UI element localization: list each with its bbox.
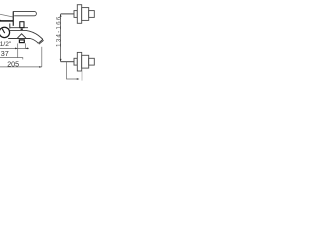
svg-text:1/2": 1/2" xyxy=(0,41,12,48)
svg-text:205: 205 xyxy=(7,60,19,68)
svg-text:37: 37 xyxy=(1,49,9,58)
svg-text:134-166: 134-166 xyxy=(55,16,62,47)
